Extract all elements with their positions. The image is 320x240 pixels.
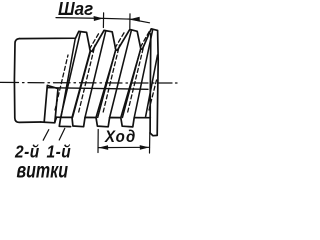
svg-text:Ход: Ход <box>104 128 136 146</box>
svg-text:витки: витки <box>17 159 69 183</box>
svg-text:Шаг: Шаг <box>58 0 93 19</box>
